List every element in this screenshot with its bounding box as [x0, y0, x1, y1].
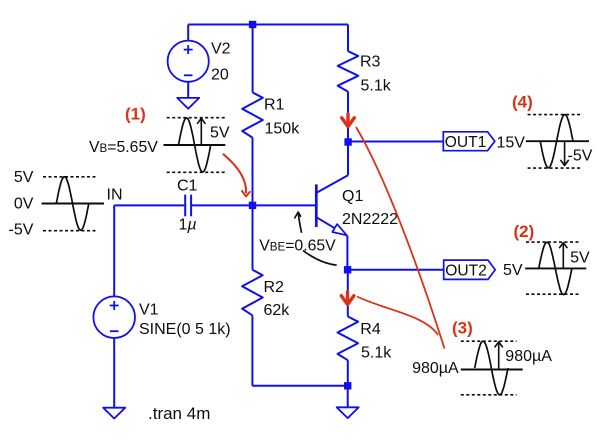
- label 5V out2: [503, 262, 523, 279]
- svg-text:0V: 0V: [14, 196, 34, 213]
- wire emitter to OUT2: [348, 269, 444, 271]
- spice directive .tran 4m: [148, 404, 210, 423]
- waveform sketch 2 OUT2: [525, 242, 586, 295]
- svg-text:2N2222: 2N2222: [342, 211, 398, 228]
- svg-text:5.1k: 5.1k: [361, 77, 392, 94]
- red curve emitter to sketch3: [357, 297, 438, 336]
- svg-text:150k: 150k: [265, 121, 301, 138]
- label 5V arrow sketch2: [570, 250, 590, 267]
- wire collector to OUT1: [348, 141, 443, 143]
- waveform sketch 4 OUT1: [526, 115, 589, 169]
- label C1 1u: [177, 178, 198, 234]
- capacitor C1: [114, 195, 252, 217]
- voltage source V1: [93, 296, 135, 407]
- node collector junction: [344, 138, 351, 145]
- svg-text:VB=5.65V: VB=5.65V: [89, 139, 158, 156]
- black arrow to base-emitter: [294, 212, 301, 233]
- svg-text:C1: C1: [177, 178, 198, 195]
- waveform sketch 3 emitter current: [461, 341, 523, 395]
- svg-text:Q1: Q1: [342, 188, 363, 205]
- wire top rail: [188, 24, 348, 26]
- svg-text:(4): (4): [512, 92, 533, 111]
- svg-text:-5V: -5V: [568, 147, 593, 164]
- svg-text:5V: 5V: [14, 169, 34, 186]
- svg-text:OUT1: OUT1: [445, 134, 487, 151]
- red arrow collector current: [342, 114, 355, 127]
- ground below V1: [103, 408, 125, 419]
- svg-text:SINE(0 5 1k): SINE(0 5 1k): [139, 321, 231, 338]
- node emitter junction: [344, 266, 351, 273]
- svg-text:5.1k: 5.1k: [361, 344, 392, 361]
- svg-text:5V: 5V: [570, 250, 590, 267]
- red label (4): [512, 92, 533, 111]
- label V2 value 20: [211, 41, 231, 84]
- voltage source V2: [168, 25, 209, 98]
- red label (3): [452, 318, 473, 337]
- svg-text:.tran 4m: .tran 4m: [148, 404, 210, 423]
- label R2 62k: [264, 279, 291, 319]
- resistor R4: [338, 270, 359, 386]
- svg-text:62k: 62k: [264, 302, 291, 319]
- red label (2): [514, 222, 535, 241]
- label Q1 2N2222: [342, 188, 398, 228]
- svg-text:V1: V1: [139, 302, 159, 319]
- label R3 5.1k: [360, 54, 392, 95]
- resistor R2: [242, 205, 348, 385]
- label 980uA right: [505, 348, 552, 365]
- wire IN vertical: [113, 205, 115, 296]
- red curve collector to sketch3: [356, 127, 445, 349]
- resistor R1: [242, 25, 263, 206]
- input waveform sketch: [42, 177, 104, 231]
- svg-text:R3: R3: [360, 54, 381, 71]
- svg-text:VBE=0.65V: VBE=0.65V: [259, 237, 336, 254]
- input waveform sketch axis labels 5V 0V -5V: [8, 169, 33, 239]
- svg-text:(2): (2): [514, 222, 535, 241]
- svg-text:980µA: 980µA: [412, 360, 459, 377]
- label VB=5.65V: [89, 139, 158, 156]
- node top junction: [249, 21, 256, 28]
- resistor R3: [338, 25, 359, 143]
- svg-text:5V: 5V: [503, 262, 523, 279]
- svg-text:1µ: 1µ: [179, 217, 197, 234]
- svg-text:OUT2: OUT2: [445, 263, 487, 280]
- svg-text:R1: R1: [264, 97, 285, 114]
- label 980uA left: [412, 360, 459, 377]
- port flag OUT2: [444, 260, 496, 279]
- label 5V sketch1: [210, 125, 230, 142]
- svg-text:5V: 5V: [210, 125, 230, 142]
- svg-text:(3): (3): [452, 318, 473, 337]
- ground below R4: [337, 386, 359, 418]
- port flag OUT1: [443, 132, 495, 151]
- svg-text:980µA: 980µA: [505, 348, 552, 365]
- svg-text:20: 20: [211, 66, 229, 83]
- red arrow emitter current: [341, 292, 354, 305]
- red label (1): [125, 104, 146, 123]
- node bottom junction: [344, 382, 351, 389]
- label -5V sketch4: [568, 147, 593, 164]
- label V1 SINE: [139, 302, 231, 338]
- label VBE=0.65V: [259, 237, 336, 254]
- svg-text:-5V: -5V: [8, 221, 33, 238]
- label R1 150k: [264, 97, 300, 138]
- ground below V2: [177, 98, 199, 109]
- label 15V: [497, 134, 526, 151]
- label IN: [107, 187, 123, 204]
- waveform sketch 1 base voltage: [164, 118, 226, 173]
- svg-text:R4: R4: [360, 321, 381, 338]
- transistor Q1 2N2222: [253, 142, 349, 270]
- svg-text:R2: R2: [264, 279, 285, 296]
- black curve VBE to emitter node: [303, 251, 337, 266]
- svg-text:(1): (1): [125, 104, 146, 123]
- red arrow into base node: [223, 154, 250, 197]
- svg-text:IN: IN: [107, 187, 123, 204]
- label R4 5.1k: [360, 321, 392, 361]
- svg-text:15V: 15V: [497, 134, 526, 151]
- node base junction: [249, 202, 256, 209]
- svg-text:V2: V2: [211, 41, 231, 58]
